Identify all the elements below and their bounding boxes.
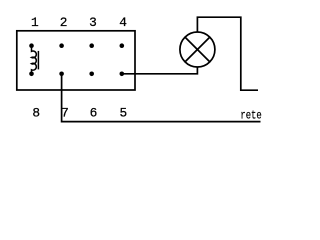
wire from pin 5 to lamp bottom	[122, 67, 198, 74]
pin 2 terminal dot	[59, 43, 64, 48]
svg-text:1: 1	[31, 15, 39, 30]
pin 6 terminal dot	[89, 72, 94, 77]
svg-text:4: 4	[119, 15, 127, 30]
pin 8 terminal dot	[29, 72, 34, 77]
pin 3 terminal dot	[89, 43, 94, 48]
svg-text:5: 5	[120, 106, 128, 121]
svg-text:6: 6	[90, 106, 98, 121]
pin 4 terminal dot	[120, 43, 125, 48]
svg-text:rete: rete	[240, 110, 261, 124]
wire from lamp top to mains terminal	[197, 17, 258, 90]
svg-text:3: 3	[89, 15, 97, 30]
lamp L1 (circle with X)	[180, 32, 215, 67]
svg-text:2: 2	[60, 15, 68, 30]
relay coil winding between pin 1 and pin 8	[32, 46, 37, 74]
svg-text:8: 8	[32, 106, 40, 121]
pin 1 terminal dot	[29, 43, 34, 48]
wire from pin 7 to mains terminal	[62, 74, 261, 122]
pin 7 terminal dot	[59, 72, 64, 77]
relay coil core bar	[37, 51, 39, 70]
pin 5 terminal dot	[120, 72, 125, 77]
relay box outline	[17, 31, 135, 90]
